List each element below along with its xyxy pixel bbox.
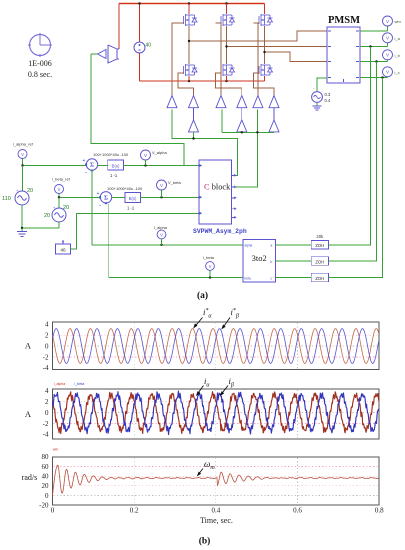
- wire leg 1 vertical: [188, 4, 190, 15]
- svg-text:rad/s: rad/s: [22, 473, 38, 482]
- junction DC- leg1: [188, 80, 190, 82]
- wire B(s)1 to C block: [123, 165, 199, 167]
- wire carrier to dc-link amp: [91, 54, 184, 166]
- curve i_beta_ref (blue): [53, 329, 379, 364]
- regulator block B(s)1: [108, 160, 124, 170]
- wire gate Q2L: [216, 73, 242, 96]
- svg-text:V_alpha: V_alpha: [152, 150, 167, 155]
- wire driver U4b input drop: [241, 131, 243, 133]
- gridlines panel 1: [54, 334, 379, 336]
- voltage source V1 (DC link): [134, 42, 145, 53]
- wire gate Q3L: [254, 73, 275, 96]
- svg-text:20k: 20k: [316, 234, 324, 239]
- junction i_beta_ref node: [58, 196, 60, 198]
- svg-text:20: 20: [42, 482, 50, 490]
- ZOH block 1: [311, 241, 328, 250]
- wire driver U3a input drop: [221, 109, 223, 132]
- svg-text:60: 60: [42, 463, 50, 471]
- svg-text:C block: C block: [204, 183, 231, 192]
- wire DC- rail: [140, 80, 265, 82]
- wire alpha line to 3to2: [92, 244, 243, 246]
- PMSM machine block: [327, 27, 360, 83]
- gate driver U5a: [253, 96, 263, 108]
- junction PWM net A: [192, 137, 194, 139]
- junction PWM net B at U5a: [256, 131, 258, 133]
- svg-text:Time, sec.: Time, sec.: [200, 516, 233, 525]
- svg-text:0: 0: [45, 342, 49, 350]
- wire gate Q3H: [257, 23, 259, 96]
- voltmeter i_alpha: [157, 230, 166, 239]
- wire i_a meter: [360, 46, 388, 48]
- svg-text:ZOH: ZOH: [315, 243, 324, 248]
- svg-text:0.6: 0.6: [293, 507, 302, 515]
- gate driver U4b: [237, 120, 247, 132]
- svg-text:20: 20: [63, 205, 69, 211]
- voltmeter i_beta_ref: [55, 185, 64, 194]
- svg-text:i_beta: i_beta: [74, 382, 84, 386]
- svg-text:-: -: [313, 85, 315, 90]
- junction phase A tap: [188, 40, 190, 42]
- svg-text:100+1000*40u -100: 100+1000*40u -100: [107, 186, 143, 191]
- wire rail left drop: [118, 4, 120, 50]
- gate driver U3a: [216, 96, 226, 108]
- svg-text:V: V: [58, 187, 61, 192]
- junction i_alpha_ref node: [21, 164, 23, 166]
- transistor Q1L (MOSFET with body diode): [184, 64, 198, 76]
- svg-text:iα: iα: [204, 376, 210, 389]
- wire S1 to B(s)1: [98, 165, 108, 167]
- junction i_b feedback: [375, 60, 377, 62]
- svg-text:V: V: [160, 183, 163, 188]
- svg-text:4: 4: [45, 387, 49, 395]
- svg-text:0.8 sec.: 0.8 sec.: [28, 70, 52, 79]
- svg-text:alpha: alpha: [245, 244, 253, 248]
- curve wm (rotor speed): [53, 465, 379, 495]
- svg-text:V: V: [160, 232, 163, 237]
- ground: [21, 228, 23, 232]
- svg-text:(a): (a): [197, 290, 208, 301]
- svg-text:V: V: [21, 152, 24, 157]
- source sine 20/20 (beta reference): [52, 208, 66, 222]
- junction on rail leg1: [188, 2, 190, 4]
- svg-text:0.3: 0.3: [325, 92, 331, 97]
- svg-text:−: −: [99, 203, 102, 209]
- wire i_alpha_ref to summer: [22, 159, 24, 166]
- wire 3to2 b to ZOH2: [275, 260, 311, 262]
- svg-text:-2: -2: [43, 353, 49, 361]
- wire leg 3 vertical: [264, 4, 266, 15]
- svg-text:c: c: [271, 277, 273, 281]
- svg-text:0: 0: [45, 409, 49, 417]
- ZOH block 3: [311, 273, 328, 282]
- svg-text:0.4: 0.4: [325, 98, 331, 103]
- svg-text:0: 0: [51, 507, 55, 515]
- wire ZOH2 feedback up to i_b: [328, 62, 376, 262]
- svg-text:a: a: [271, 244, 273, 248]
- svg-text:ZOH: ZOH: [315, 259, 324, 264]
- wire B(s)2 to C block: [141, 196, 200, 198]
- svg-text:-4: -4: [43, 364, 49, 372]
- svg-text:ZOH: ZOH: [315, 276, 324, 281]
- junction DC- leg2: [225, 80, 227, 82]
- junction PWM net B at U4b: [241, 131, 243, 133]
- wire 40 block to C block: [71, 213, 200, 249]
- svg-text:V: V: [209, 264, 212, 269]
- svg-text:beta: beta: [245, 277, 251, 281]
- voltmeter i_alpha_ref: [18, 150, 27, 159]
- plot panel b3 rotor speed frame: [53, 457, 380, 505]
- transistor Q3H (MOSFET with body diode): [259, 14, 273, 26]
- transistor Q1H (MOSFET with body diode): [184, 14, 198, 26]
- svg-text:-4: -4: [43, 431, 49, 439]
- wire source bottoms to ground: [21, 205, 23, 228]
- svg-text:i_alpha: i_alpha: [154, 225, 168, 230]
- summing junction S1 (alpha): [86, 159, 97, 170]
- wire DC+ rail: [119, 2, 265, 5]
- voltmeter V_alpha: [141, 150, 151, 160]
- gate driver U4a: [237, 96, 247, 108]
- svg-text:i*β: i*β: [231, 307, 239, 320]
- wire i_b meter: [360, 61, 388, 63]
- transistor Q2L (MOSFET with body diode): [221, 64, 235, 76]
- svg-text:1E-006: 1E-006: [28, 59, 52, 68]
- junction V_beta tap: [160, 196, 162, 198]
- svg-text:1 -1: 1 -1: [127, 206, 135, 211]
- wire 3to2 c to ZOH3: [275, 277, 311, 279]
- junction i_alpha meter tap: [160, 244, 162, 246]
- wire down to source 110V: [22, 166, 24, 192]
- wire phase B to PMSM: [227, 46, 328, 48]
- wire source top lead: [139, 4, 141, 43]
- wire phase C to PMSM: [265, 52, 328, 62]
- wire driver U2b input drop: [193, 132, 195, 139]
- svg-text:4: 4: [45, 321, 49, 329]
- regulator block B(s)2: [125, 192, 141, 202]
- svg-text:110: 110: [2, 196, 11, 202]
- svg-text:2: 2: [45, 398, 49, 406]
- wire ZOH1 feedback up to i_a: [328, 47, 370, 245]
- plot panel b2 actual currents frame: [53, 389, 380, 439]
- svg-text:0.8: 0.8: [375, 507, 384, 515]
- svg-text:A: A: [25, 341, 32, 351]
- svg-text:0.2: 0.2: [130, 507, 139, 515]
- annotation arrow wm: [198, 469, 203, 475]
- wire 3to2 a to ZOH1: [275, 244, 311, 246]
- voltmeter i_beta: [206, 262, 215, 271]
- svg-text:PMSM: PMSM: [328, 15, 360, 26]
- wire i_beta_ref to summer: [58, 194, 60, 198]
- junction phase C tap: [263, 51, 265, 53]
- svg-text:0: 0: [45, 492, 49, 500]
- annotation arrow alpha: [197, 386, 203, 395]
- svg-text:+: +: [83, 158, 86, 164]
- wire gate Q1H: [172, 23, 184, 96]
- source sine 110/20 (alpha reference): [15, 191, 29, 205]
- gridlines panel 2: [54, 401, 379, 403]
- junction phase B tap: [225, 45, 227, 47]
- constant block 40: [56, 244, 71, 254]
- svg-text:i_alpha: i_alpha: [53, 382, 65, 386]
- wire S2 to B(s)2: [112, 196, 125, 198]
- ZOH block 2: [311, 257, 328, 266]
- svg-text:20: 20: [44, 213, 50, 219]
- wire between cascaded drivers: [273, 108, 275, 120]
- svg-text:80: 80: [42, 453, 50, 461]
- buffer amp U7 (dc-link modulator): [98, 50, 107, 59]
- svg-text:V_beta: V_beta: [168, 180, 181, 185]
- svg-text:40: 40: [60, 248, 66, 253]
- transistor Q2H (MOSFET with body diode): [221, 14, 235, 26]
- curve i_alpha_ref (red): [53, 329, 379, 364]
- wire i_beta feedback to S2: [108, 204, 110, 278]
- voltmeter wm: [383, 16, 393, 26]
- svg-text:-2: -2: [43, 420, 49, 428]
- junction i_c feedback: [381, 76, 383, 78]
- wire source bottom lead: [139, 53, 141, 81]
- svg-text:Σ: Σ: [104, 195, 108, 202]
- wire PWM net B (C block out2 to drivers): [232, 109, 258, 186]
- wire leg 2 vertical: [226, 4, 228, 15]
- wire PMSM load torque: [317, 78, 327, 91]
- source torque step (0.3/0.4): [312, 92, 323, 103]
- junction on rail leg2: [225, 2, 227, 4]
- svg-text:wm: wm: [395, 19, 402, 24]
- junction i_beta meter tap: [209, 276, 211, 278]
- voltmeter V_beta: [157, 180, 167, 190]
- wire beta line to 3to2: [109, 277, 243, 279]
- clock symbol (simulation step): [30, 35, 51, 56]
- voltmeter i_a: [383, 33, 393, 43]
- transistor Q3L (MOSFET with body diode): [259, 64, 273, 76]
- svg-text:A: A: [25, 409, 32, 419]
- wire gate Q2H: [220, 23, 223, 96]
- gridlines panel 3: [54, 465, 379, 467]
- 3to2 transformation block: [243, 239, 275, 282]
- svg-text:(b): (b): [199, 536, 211, 547]
- annotation arrow alpha ref: [195, 318, 203, 327]
- svg-text:V: V: [144, 153, 147, 158]
- svg-text:3to2: 3to2: [252, 253, 267, 263]
- svg-text:i_beta: i_beta: [203, 255, 215, 260]
- gate driver U6b: [269, 120, 279, 132]
- wire i_alpha feedback to S1: [91, 170, 93, 245]
- svg-text:B(s): B(s): [112, 163, 120, 168]
- wire i_c meter: [360, 77, 388, 79]
- svg-text:20: 20: [27, 188, 33, 194]
- svg-text:SVPWM_Asym_2ph: SVPWM_Asym_2ph: [193, 228, 247, 235]
- svg-text:1 -1: 1 -1: [110, 173, 118, 178]
- svg-text:2: 2: [45, 332, 49, 340]
- summing junction S2 (beta): [100, 192, 111, 203]
- junction ground node: [21, 227, 23, 229]
- wire gate Q1L: [178, 73, 194, 96]
- wire into amp: [91, 53, 98, 55]
- svg-text:i_b: i_b: [394, 53, 400, 58]
- svg-text:-20: -20: [39, 501, 49, 509]
- svg-text:+: +: [97, 191, 100, 197]
- annotation arrow beta: [221, 386, 228, 395]
- wire down to source 20V: [58, 197, 60, 208]
- svg-text:B(s): B(s): [129, 196, 137, 201]
- wire wm meter: [360, 30, 388, 32]
- voltmeter i_c: [383, 67, 393, 77]
- gate driver U2b: [189, 120, 199, 132]
- svg-text:i_beta_ref: i_beta_ref: [52, 177, 71, 182]
- junction V_alpha tap: [144, 164, 146, 166]
- ground under torque source: [316, 103, 318, 106]
- svg-text:100+1000*40u -100: 100+1000*40u -100: [93, 152, 129, 157]
- junction on rail at source: [138, 2, 140, 4]
- svg-text:0.4: 0.4: [211, 507, 220, 515]
- wire between cascaded drivers: [241, 108, 243, 120]
- svg-text:i_c: i_c: [394, 70, 399, 75]
- svg-text:wm: wm: [53, 448, 59, 452]
- gate driver U6a: [269, 96, 279, 108]
- wire between cascaded drivers: [193, 108, 195, 120]
- svg-text:40: 40: [42, 473, 50, 481]
- C block (SVPWM controller): [199, 160, 232, 224]
- svg-text:i_alpha_ref: i_alpha_ref: [13, 142, 34, 147]
- wire ZOH3 feedback up to i_c: [328, 78, 382, 278]
- svg-text:b: b: [271, 260, 273, 264]
- annotation arrow beta ref: [223, 318, 230, 328]
- junction i_a feedback: [369, 45, 371, 47]
- svg-text:i_a: i_a: [394, 36, 400, 41]
- wire driver U6b input drop: [273, 131, 275, 133]
- svg-text:Σ: Σ: [90, 162, 94, 169]
- voltmeter i_b: [383, 50, 393, 60]
- wire PWM net B horizontal: [222, 131, 274, 133]
- gate driver U1a: [167, 96, 177, 108]
- curve i_beta (blue): [53, 391, 379, 435]
- svg-text:i*α: i*α: [203, 307, 212, 320]
- svg-text:iβ: iβ: [229, 376, 234, 389]
- curve i_alpha (red): [53, 392, 379, 434]
- svg-text:−: −: [85, 171, 88, 177]
- wire phase A to PMSM: [189, 31, 327, 41]
- gate driver U2a: [189, 96, 199, 108]
- svg-text:40: 40: [146, 43, 152, 49]
- wire PWM net A (C block out1 to drivers): [172, 109, 238, 175]
- plot panel b1 reference currents frame: [53, 322, 380, 370]
